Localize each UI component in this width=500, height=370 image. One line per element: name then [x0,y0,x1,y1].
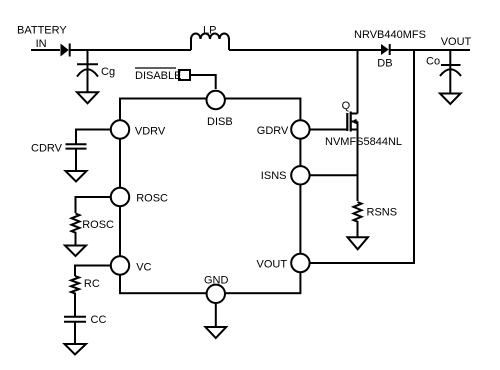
svg-text:ROSC: ROSC [82,219,114,231]
svg-text:DB: DB [377,58,392,70]
svg-text:Cg: Cg [101,66,115,78]
svg-text:Q: Q [342,100,351,112]
svg-text:ROSC: ROSC [136,193,168,205]
svg-text:RSNS: RSNS [367,207,398,219]
svg-text:LP: LP [203,25,216,37]
svg-text:VC: VC [136,262,151,274]
svg-text:RC: RC [84,278,100,290]
svg-text:DISABLE: DISABLE [135,70,181,82]
svg-text:GDRV: GDRV [257,125,289,137]
svg-text:CC: CC [91,314,107,326]
svg-text:GND: GND [204,275,229,287]
svg-text:BATTERY: BATTERY [17,25,67,37]
svg-text:VDRV: VDRV [135,125,166,137]
svg-text:VOUT: VOUT [441,36,472,48]
svg-text:VOUT: VOUT [257,259,288,271]
svg-text:DISB: DISB [207,116,233,128]
svg-text:Co: Co [426,56,440,68]
svg-text:NRVB440MFS: NRVB440MFS [354,29,426,41]
svg-text:CDRV: CDRV [31,143,63,155]
svg-text:IN: IN [36,38,47,50]
svg-text:ISNS: ISNS [261,170,287,182]
svg-text:NVMFS5844NL: NVMFS5844NL [325,136,402,148]
